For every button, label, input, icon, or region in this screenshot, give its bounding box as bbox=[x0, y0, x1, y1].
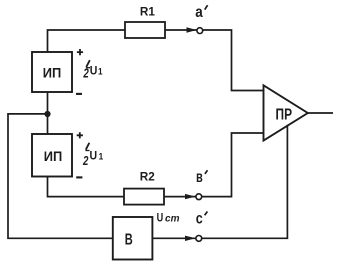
junction node bbox=[44, 111, 50, 117]
arrow into terminal в' bbox=[185, 194, 196, 199]
value label half U1 (upper) bbox=[83, 60, 104, 80]
arrow into terminal a' bbox=[187, 27, 197, 32]
wire: в' to lower input of ПР bbox=[202, 133, 264, 197]
wire: ПР output bbox=[308, 112, 333, 114]
label Uст bbox=[157, 211, 180, 225]
svg-text:ст: ст bbox=[165, 213, 180, 225]
arrow into terminal c' bbox=[185, 236, 196, 241]
terminal a' bbox=[197, 28, 203, 34]
svg-text:1: 1 bbox=[98, 67, 103, 78]
svg-text:U: U bbox=[90, 63, 98, 77]
prime of a' bbox=[205, 5, 208, 9]
block В bbox=[113, 217, 153, 260]
wire: R2 to terminal в' bbox=[164, 196, 196, 198]
terminal в' bbox=[196, 194, 202, 200]
polarity plus of ИП2 bbox=[77, 132, 83, 138]
svg-text:R1: R1 bbox=[140, 5, 155, 19]
svg-text:ПР: ПР bbox=[276, 106, 293, 123]
svg-text:c: c bbox=[196, 210, 203, 227]
svg-text:U: U bbox=[90, 148, 98, 162]
prime of в' bbox=[205, 170, 208, 174]
wire: a' to upper input of ПР bbox=[203, 30, 264, 91]
wire: ИП1 minus to ИП2 plus through junction bbox=[47, 92, 49, 134]
svg-text:U: U bbox=[157, 211, 164, 225]
wire: ИП2 minus down and right to R2 bbox=[48, 177, 125, 197]
polarity plus of ИП1 bbox=[77, 49, 83, 55]
svg-text:в: в bbox=[196, 169, 203, 186]
source ИП2 (lower) bbox=[32, 134, 72, 177]
polarity minus of ИП2 bbox=[76, 176, 82, 178]
wire: c' up to lower edge of ПР bbox=[202, 125, 288, 239]
svg-text:ИП: ИП bbox=[44, 148, 63, 164]
svg-text:В: В bbox=[125, 232, 133, 249]
wire: from source ИП1 plus terminal up and right to R1 bbox=[48, 30, 126, 53]
wire: R1 to terminal a' bbox=[165, 29, 197, 31]
wire: В to terminal c' bbox=[152, 237, 196, 239]
resistor R2 bbox=[124, 189, 164, 205]
svg-text:1: 1 bbox=[99, 152, 104, 163]
wire: junction left rail down and along bottom to block В bbox=[8, 114, 113, 238]
svg-text:2: 2 bbox=[82, 153, 89, 168]
terminal c' bbox=[196, 236, 202, 242]
prime of c' bbox=[205, 212, 208, 216]
value label half U1 (lower) bbox=[82, 143, 104, 168]
svg-text:a: a bbox=[195, 4, 203, 21]
svg-text:ИП: ИП bbox=[43, 64, 62, 80]
resistor R1 bbox=[125, 22, 165, 38]
source ИП1 (upper) bbox=[32, 52, 72, 92]
svg-text:R2: R2 bbox=[140, 170, 155, 184]
polarity minus of ИП1 bbox=[76, 93, 82, 95]
svg-text:2: 2 bbox=[83, 66, 90, 81]
comparator ПР bbox=[264, 85, 308, 140]
